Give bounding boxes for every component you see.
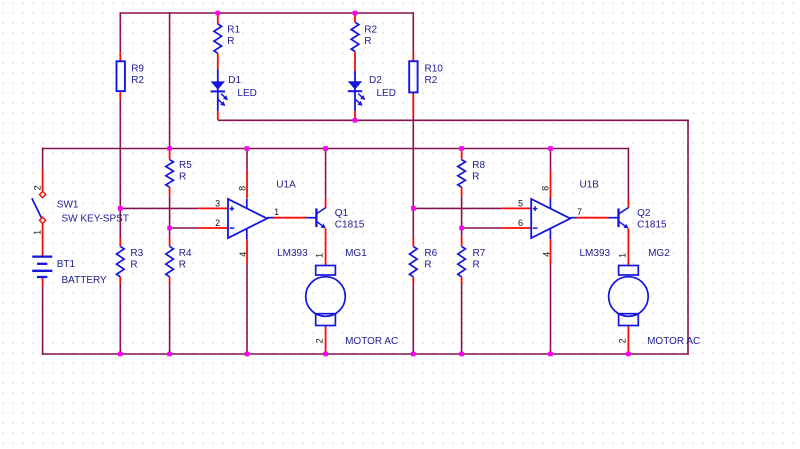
pin number MG2-1 xyxy=(618,253,628,258)
wire D2 bottom stub xyxy=(354,111,356,120)
svg-text:MOTOR AC: MOTOR AC xyxy=(345,336,398,347)
svg-text:R: R xyxy=(179,171,186,182)
wire R10-R6 column middle xyxy=(412,118,414,237)
svg-text:LM393: LM393 xyxy=(580,248,611,259)
junction top bus / R2 xyxy=(353,11,358,16)
LED D1 xyxy=(211,69,228,111)
svg-text:2: 2 xyxy=(315,338,325,343)
label U1A value xyxy=(277,248,308,259)
svg-text:MG1: MG1 xyxy=(345,248,367,259)
motor MG1 xyxy=(306,266,346,326)
switch SW1 xyxy=(32,191,46,223)
wire U1B pin5 net xyxy=(413,207,501,209)
wire R9 top stub xyxy=(119,52,121,61)
svg-text:R10: R10 xyxy=(425,64,444,75)
wire R3 column bottom xyxy=(119,284,121,354)
wire R7 bottom stub xyxy=(461,277,463,284)
wire R5 bottom stub xyxy=(169,187,171,196)
wire top bus xyxy=(120,12,415,14)
svg-text:R: R xyxy=(472,171,479,182)
wire right edge return xyxy=(687,120,689,355)
label SW1 value xyxy=(62,214,129,225)
wire R4 bottom stub xyxy=(169,277,171,284)
label Q2 xyxy=(637,208,651,219)
wire R2-D2 link xyxy=(354,52,356,71)
svg-text:1: 1 xyxy=(315,253,325,258)
op-amp U1A xyxy=(228,199,273,240)
wire U1A pin4 stub xyxy=(246,239,248,264)
label Q2 value xyxy=(637,219,667,230)
svg-text:SW1: SW1 xyxy=(57,199,79,210)
label MG1 value xyxy=(345,336,398,347)
wire R8-R7 column middle xyxy=(461,196,463,237)
pin number U1B-8 xyxy=(541,186,551,191)
svg-text:R: R xyxy=(179,259,186,270)
op-amp U1B xyxy=(531,199,576,240)
label BT1 xyxy=(57,259,76,270)
svg-text:R8: R8 xyxy=(472,160,485,171)
label Q1 xyxy=(335,208,349,219)
wire U1B pin5 stub xyxy=(502,207,531,209)
label R10 value xyxy=(425,64,444,86)
junction top bus / R1 xyxy=(216,11,221,16)
wire U1B pin8 feed xyxy=(550,149,552,171)
svg-text:2: 2 xyxy=(215,218,220,228)
wire Q1 emitter to MG1 xyxy=(325,229,327,266)
transistor Q1 xyxy=(306,208,325,229)
svg-text:R5: R5 xyxy=(179,160,192,171)
svg-text:5: 5 xyxy=(518,198,523,208)
label SW1 xyxy=(57,199,79,210)
svg-text:R2: R2 xyxy=(364,24,377,35)
wire R7 column bottom xyxy=(461,284,463,354)
wire U1A pin2 stub xyxy=(198,227,227,229)
pin number U1A-8 xyxy=(237,186,247,191)
wire R7 top stub xyxy=(461,237,463,246)
wire R1 top stub xyxy=(217,13,219,24)
label R2 value xyxy=(364,24,377,47)
resistor R7 xyxy=(458,246,466,276)
junction LED bus / D2 xyxy=(353,118,358,123)
label U1A xyxy=(276,179,296,190)
pin number U1B-4 xyxy=(541,252,551,257)
svg-text:8: 8 xyxy=(541,186,551,191)
junction mid bus / U1A pin8 xyxy=(245,146,250,151)
svg-text:MG2: MG2 xyxy=(648,248,670,259)
label MG1 xyxy=(345,248,367,259)
wire R2 top stub xyxy=(354,13,356,22)
wire SW1 pin2 stub xyxy=(42,170,44,193)
svg-text:R: R xyxy=(227,36,234,47)
resistor R8 xyxy=(458,160,466,188)
wire R6 top stub xyxy=(412,237,414,246)
svg-text:R3: R3 xyxy=(130,248,143,259)
pin number U1B-6 xyxy=(518,218,523,228)
label R1 value xyxy=(227,24,240,47)
svg-text:BATTERY: BATTERY xyxy=(62,275,108,286)
svg-text:C1815: C1815 xyxy=(637,219,667,230)
pin number U1A-4 xyxy=(238,252,248,257)
svg-text:U1B: U1B xyxy=(580,179,600,190)
label R6 value xyxy=(424,248,437,271)
svg-text:D2: D2 xyxy=(369,75,382,86)
svg-text:Q2: Q2 xyxy=(637,208,651,219)
pin number U1B-7 xyxy=(577,207,582,217)
svg-text:R1: R1 xyxy=(227,24,240,35)
svg-text:R6: R6 xyxy=(424,248,437,259)
wire R9 bottom stub xyxy=(119,91,121,99)
wire R3 top stub xyxy=(119,237,121,246)
wire U1A pin1 to Q1 base xyxy=(273,217,306,219)
resistor R1 xyxy=(214,24,222,53)
wire Q2 collector stub xyxy=(627,199,629,208)
svg-text:4: 4 xyxy=(238,252,248,257)
label U1B value xyxy=(580,248,611,259)
pin number U1A-1 xyxy=(274,207,279,217)
battery BT1 xyxy=(32,257,52,277)
wire R10 top stub xyxy=(412,52,414,61)
junction mid bus / U1B pin8 xyxy=(548,146,553,151)
svg-text:R4: R4 xyxy=(179,248,192,259)
wire U1A pin8 feed xyxy=(246,149,248,170)
svg-text:2: 2 xyxy=(32,185,42,190)
wire D1 bottom stub xyxy=(217,111,219,120)
resistor R6 xyxy=(410,246,418,276)
svg-text:BT1: BT1 xyxy=(57,259,76,270)
junction bottom bus / MG1 xyxy=(323,352,328,357)
wire R3 bottom stub xyxy=(119,277,121,284)
svg-text:R9: R9 xyxy=(131,64,144,75)
wire battery negative stub xyxy=(42,277,44,286)
pin number U1A-3 xyxy=(215,198,220,208)
svg-text:LED: LED xyxy=(377,88,396,99)
wire R5 top stub xyxy=(169,151,171,160)
wire R10 column top xyxy=(412,12,414,52)
wire R8 bottom stub xyxy=(461,187,463,196)
junction bottom bus / R6 xyxy=(411,352,416,357)
svg-text:R: R xyxy=(473,259,480,270)
wire U1B pin6 net xyxy=(462,227,502,229)
label D2 xyxy=(369,75,382,86)
wire R4 column bottom xyxy=(169,284,171,354)
wire R5 column top xyxy=(169,12,171,151)
wire U1B pin4 to bottom bus xyxy=(550,264,552,354)
wire U1A pin8 stub xyxy=(246,170,248,199)
junction mid bus / Q1 collector xyxy=(323,146,328,151)
wire SW1 pin1 to battery xyxy=(42,223,44,257)
wire R1-D1 link xyxy=(217,53,219,69)
label MG2 value xyxy=(647,336,700,347)
label R7 value xyxy=(473,248,486,271)
junction bottom bus / R7 xyxy=(459,352,464,357)
svg-text:MOTOR AC: MOTOR AC xyxy=(647,336,700,347)
svg-text:C1815: C1815 xyxy=(335,219,365,230)
wire U1A pin2 net xyxy=(170,227,199,229)
wire R6 bottom stub xyxy=(412,277,414,284)
svg-text:3: 3 xyxy=(215,198,220,208)
wire bottom bus xyxy=(42,353,689,355)
junction bottom bus / R3 xyxy=(118,352,123,357)
resistor R2 xyxy=(351,22,359,51)
pin number U1B-5 xyxy=(518,198,523,208)
wire U1B pin7 to Q2 base xyxy=(577,217,609,219)
pin number MG1-2 xyxy=(315,338,325,343)
wire MG2 pin2 stub xyxy=(627,326,629,355)
junction node pin3 / R9-R3 xyxy=(118,206,123,211)
svg-text:R: R xyxy=(130,259,137,270)
svg-text:R: R xyxy=(364,36,371,47)
junction bottom bus / MG2 xyxy=(626,352,631,357)
svg-text:1: 1 xyxy=(32,230,42,235)
junction bottom bus / U1B pin4 xyxy=(548,352,553,357)
pin number SW1-1 xyxy=(32,230,42,235)
wire R4 top stub xyxy=(169,237,171,246)
wire U1A pin4 to bottom bus xyxy=(246,264,248,354)
svg-text:7: 7 xyxy=(577,207,582,217)
label R8 value xyxy=(472,160,485,183)
svg-text:D1: D1 xyxy=(228,75,241,86)
label R9 value xyxy=(131,64,144,86)
svg-text:6: 6 xyxy=(518,218,523,228)
wire U1A pin3 stub xyxy=(198,207,227,209)
svg-text:R2: R2 xyxy=(131,75,144,86)
wire Q2 emitter to MG2 xyxy=(627,229,629,266)
wire U1B pin6 stub xyxy=(502,227,531,229)
wire mid supply bus xyxy=(42,148,629,150)
wire R10 bottom stub xyxy=(412,93,414,118)
svg-text:8: 8 xyxy=(237,186,247,191)
wire Q1 collector stub xyxy=(325,198,327,208)
wire R6 column bottom xyxy=(412,284,414,354)
wire battery column upper xyxy=(42,148,44,170)
junction bottom bus / U1A pin4 xyxy=(245,352,250,357)
wire R9-R3 column middle xyxy=(119,99,121,237)
svg-text:SW KEY-SPST: SW KEY-SPST xyxy=(62,214,129,225)
label R5 value xyxy=(179,160,192,183)
junction node pin6 / R8-R7 xyxy=(459,226,464,231)
junction node pin5 / R10-R6 xyxy=(411,206,416,211)
label U1B xyxy=(580,179,600,190)
resistor R9 xyxy=(117,61,125,91)
wire LED bottom bus xyxy=(218,119,689,121)
svg-text:1: 1 xyxy=(618,253,628,258)
junction bottom bus / R4 xyxy=(167,352,172,357)
svg-text:U1A: U1A xyxy=(276,179,296,190)
label BT1 value xyxy=(62,275,108,286)
wire battery column lower xyxy=(42,286,44,355)
label R4 value xyxy=(179,248,192,271)
junction node pin2 / R5-R4 xyxy=(167,226,172,231)
svg-text:LM393: LM393 xyxy=(277,248,308,259)
label D1 xyxy=(228,75,241,86)
motor MG2 xyxy=(609,266,649,326)
label R3 value xyxy=(130,248,143,271)
label D1 value xyxy=(237,88,256,99)
junction mid bus / R5 xyxy=(167,146,172,151)
wire U1B pin4 stub xyxy=(550,239,552,264)
resistor R10 xyxy=(409,61,417,92)
wire R9 column top xyxy=(119,12,121,52)
wire Q2 collector feed xyxy=(627,148,629,199)
pin number U1A-2 xyxy=(215,218,220,228)
svg-text:2: 2 xyxy=(618,338,628,343)
LED D2 xyxy=(348,71,365,111)
wire Q1 collector feed xyxy=(325,149,327,199)
svg-text:LED: LED xyxy=(237,88,256,99)
pin number MG2-2 xyxy=(618,338,628,343)
wire R5-R4 column middle xyxy=(169,196,171,237)
svg-text:R7: R7 xyxy=(473,248,486,259)
label D2 value xyxy=(377,88,396,99)
junction mid bus / R8 xyxy=(459,146,464,151)
svg-text:1: 1 xyxy=(274,207,279,217)
wire U1B pin8 stub xyxy=(550,170,552,199)
transistor Q2 xyxy=(609,208,629,229)
wire R8 top stub xyxy=(461,151,463,160)
pin number MG1-1 xyxy=(315,253,325,258)
wire U1A pin3 net xyxy=(120,207,198,209)
svg-text:R: R xyxy=(424,259,431,270)
svg-text:4: 4 xyxy=(541,252,551,257)
resistor R5 xyxy=(166,160,174,188)
label MG2 xyxy=(648,248,670,259)
resistor R3 xyxy=(117,246,125,276)
resistor R4 xyxy=(166,246,174,276)
pin number SW1-2 xyxy=(32,185,42,190)
svg-text:Q1: Q1 xyxy=(335,208,349,219)
svg-text:R2: R2 xyxy=(425,75,438,86)
wire MG1 pin2 stub xyxy=(325,326,327,355)
label Q1 value xyxy=(335,219,365,230)
